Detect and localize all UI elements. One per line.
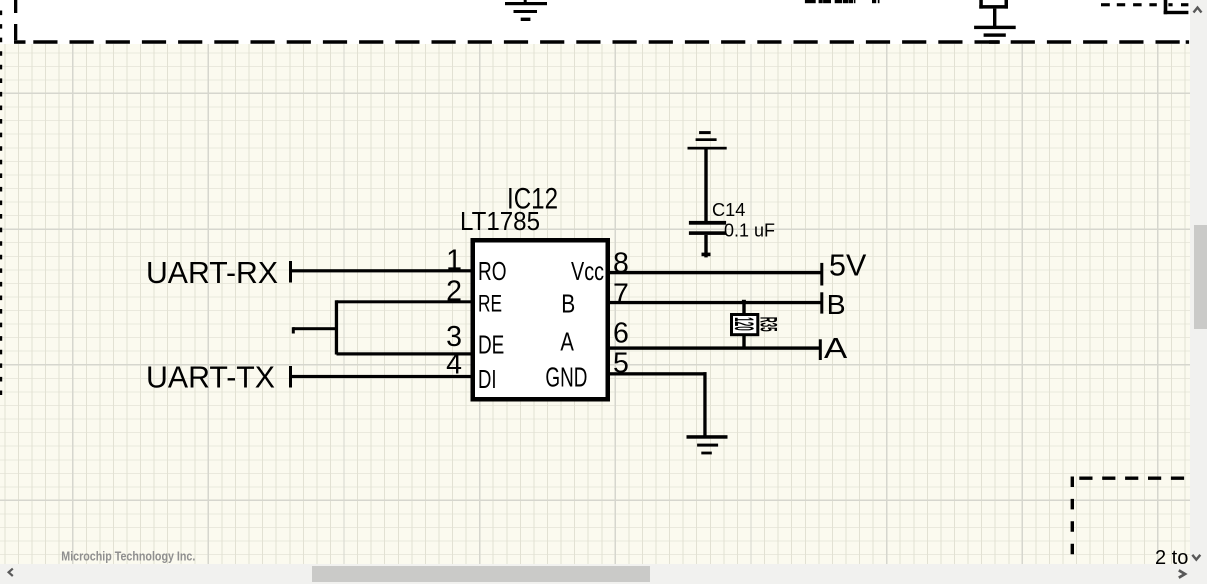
svg-text:DI: DI <box>478 364 497 394</box>
svg-text:UART-TX: UART-TX <box>146 360 275 395</box>
svg-text:2: 2 <box>446 275 462 307</box>
svg-text:GND: GND <box>545 361 587 392</box>
svg-text:6: 6 <box>613 317 629 349</box>
svg-text:RO: RO <box>478 256 507 286</box>
svg-text:R35: R35 <box>755 317 782 332</box>
svg-text:5: 5 <box>613 348 629 380</box>
svg-text:4: 4 <box>446 349 462 381</box>
svg-text:B: B <box>827 289 846 320</box>
svg-text:DE: DE <box>478 329 504 359</box>
svg-text:Microchip Technology Inc.: Microchip Technology Inc. <box>61 550 195 564</box>
svg-text:C14: C14 <box>712 200 745 220</box>
svg-text:B: B <box>561 288 575 318</box>
svg-text:A: A <box>824 333 848 365</box>
svg-text:Vcc: Vcc <box>571 256 604 286</box>
svg-text:7: 7 <box>613 278 629 310</box>
svg-text:8: 8 <box>613 248 629 280</box>
svg-text:RE: RE <box>478 290 502 317</box>
svg-text:LT1785: LT1785 <box>460 206 540 236</box>
svg-text:5V: 5V <box>829 248 867 283</box>
svg-text:2 to: 2 to <box>1155 547 1188 569</box>
svg-text:A: A <box>560 326 574 356</box>
svg-text:0.1 uF: 0.1 uF <box>724 220 775 240</box>
svg-text:UART-RX: UART-RX <box>146 255 278 290</box>
svg-text:1: 1 <box>446 245 462 277</box>
